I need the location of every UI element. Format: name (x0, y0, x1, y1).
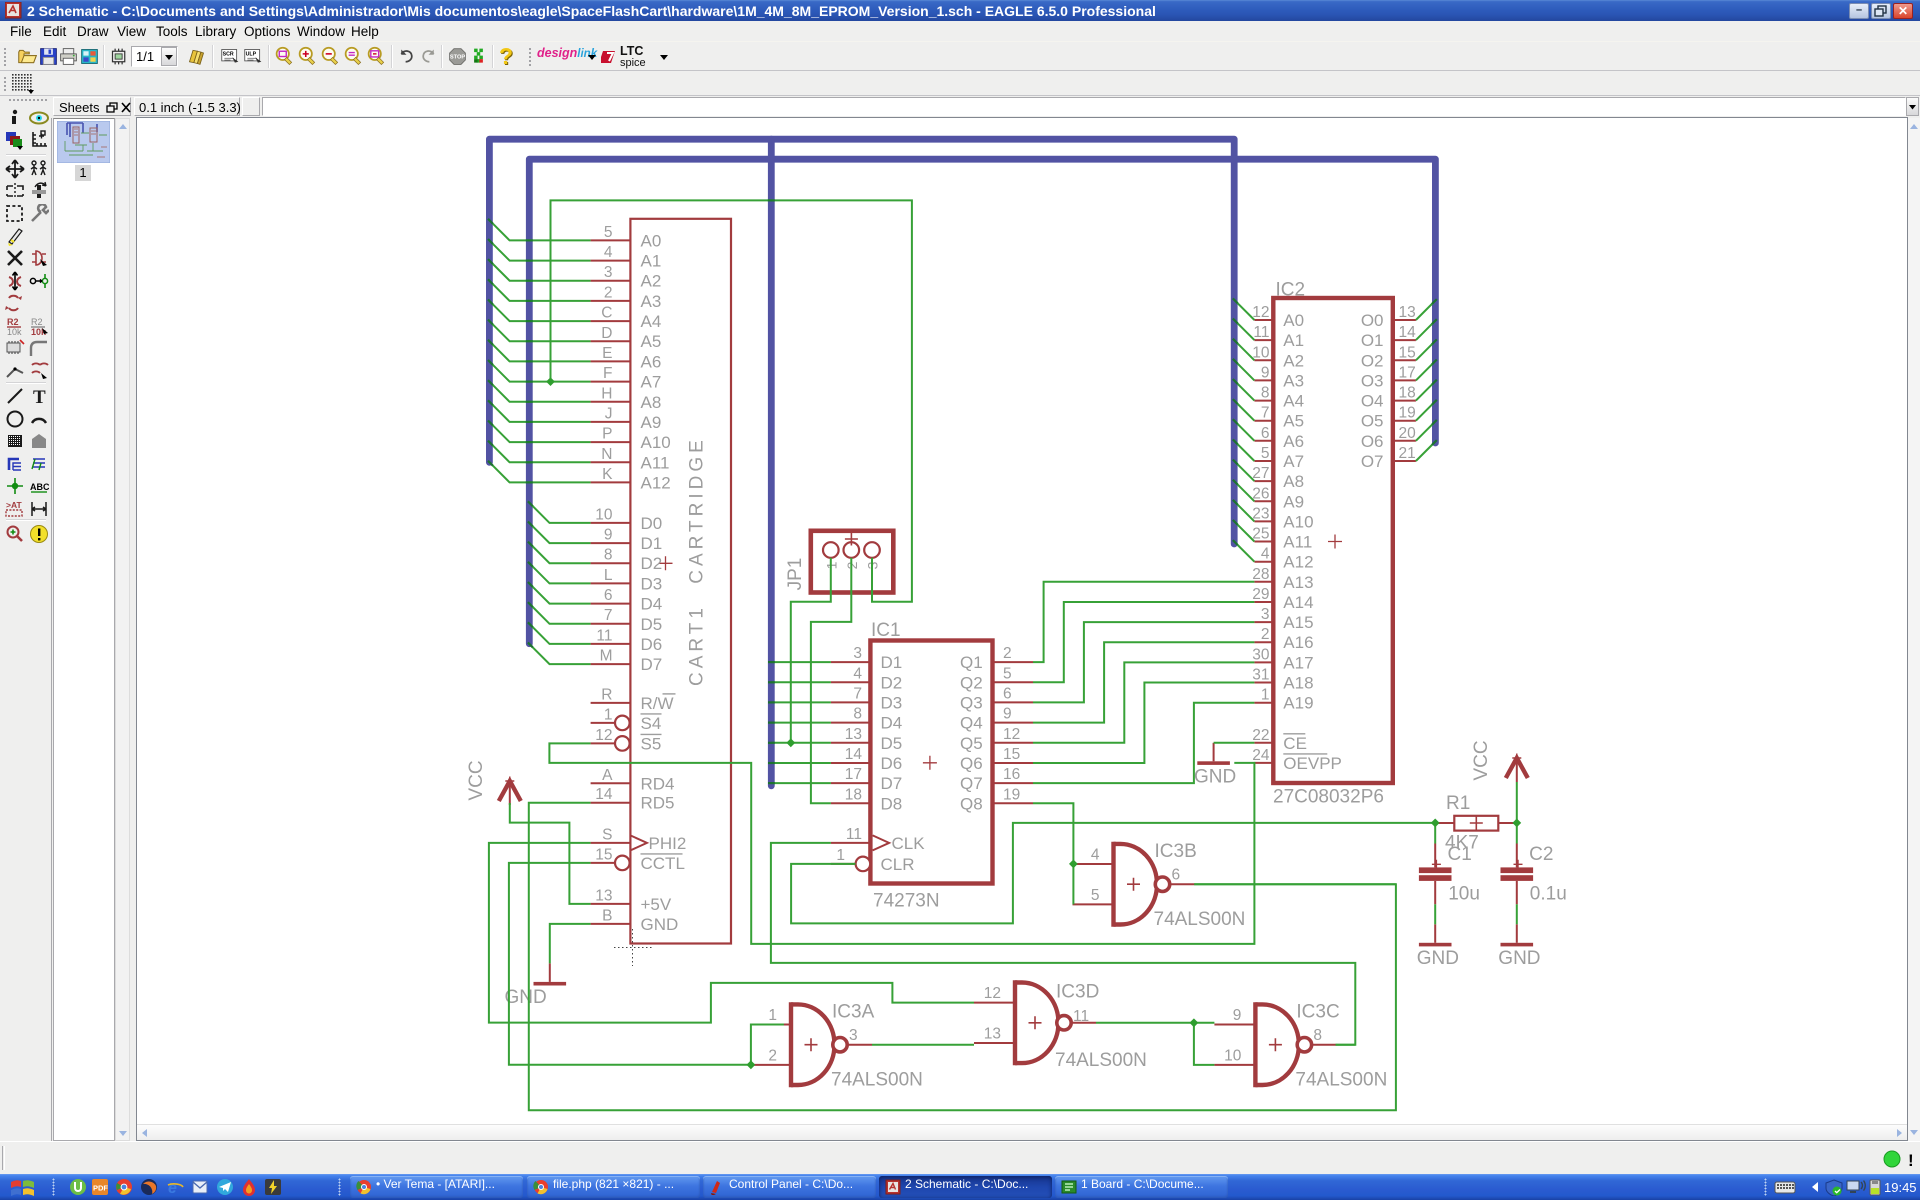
svg-text:9: 9 (1261, 364, 1270, 381)
svg-text:13: 13 (595, 887, 612, 904)
IC2 pins CE OE/VPP (1252, 727, 1342, 773)
svg-text:C: C (601, 305, 612, 322)
svg-text:3: 3 (853, 645, 862, 662)
svg-text:31: 31 (1252, 667, 1269, 684)
svg-text:15: 15 (595, 846, 612, 863)
wire net PHI2 to IC3D.12 (489, 843, 974, 1023)
wire net S5 to OE/VPP (549, 743, 1254, 944)
junction R1/VCC/C2 node (1512, 819, 1521, 828)
power VCC (right, R1) (1471, 740, 1528, 782)
svg-text:21: 21 (1399, 445, 1416, 462)
junction IC3A.1/2 (747, 1060, 756, 1069)
svg-text:D5: D5 (881, 734, 903, 753)
IC2 pins O0-O7 (1361, 304, 1416, 471)
svg-text:H: H (601, 385, 612, 402)
svg-text:19: 19 (1399, 405, 1416, 422)
svg-text:CART1: CART1 (687, 604, 708, 686)
bus ADDRESS (left vertical) (489, 139, 1234, 544)
wire nets Q1-Q6 to A13-A18 (1033, 582, 1254, 763)
svg-text:A10: A10 (641, 433, 671, 452)
svg-text:12: 12 (595, 727, 612, 744)
svg-text:A0: A0 (641, 231, 662, 250)
svg-text:IC1: IC1 (871, 620, 901, 641)
svg-text:A10: A10 (1283, 512, 1313, 531)
svg-text:R: R (601, 686, 612, 703)
svg-text:8: 8 (604, 547, 613, 564)
svg-text:A8: A8 (1283, 472, 1304, 491)
svg-text:A9: A9 (641, 413, 662, 432)
svg-text:14: 14 (845, 746, 863, 763)
svg-text:D5: D5 (641, 615, 663, 634)
svg-text:16: 16 (1003, 766, 1020, 783)
svg-text:D6: D6 (881, 754, 903, 773)
svg-text:24: 24 (1252, 747, 1270, 764)
wire net IC3D out to IC3C.9/10 (1096, 1023, 1214, 1065)
svg-text:A14: A14 (1283, 593, 1313, 612)
svg-text:A6: A6 (1283, 432, 1304, 451)
wire net RD5 to IC3B out (529, 803, 1396, 1111)
capacitor C2 0.1u (1501, 844, 1567, 905)
svg-text:A: A (602, 767, 613, 784)
svg-text:A5: A5 (641, 332, 662, 351)
connector JP1 jumper (785, 531, 893, 593)
svg-text:B: B (602, 907, 612, 924)
svg-text:D8: D8 (881, 794, 903, 813)
svg-text:25: 25 (1252, 526, 1269, 543)
svg-text:A9: A9 (1283, 492, 1304, 511)
svg-text:8: 8 (853, 706, 862, 723)
wire net IC3C out segment (1336, 1044, 1355, 1046)
wire net CLK: IC1 CLK to IC3C out (771, 843, 1355, 1045)
svg-text:+5V: +5V (641, 895, 672, 914)
svg-text:12: 12 (1003, 726, 1020, 743)
svg-text:13: 13 (845, 726, 862, 743)
svg-text:6: 6 (1003, 685, 1012, 702)
IC U1: IC1 74273N latch (870, 620, 992, 912)
junction IC3D out/IC3C.9 (1190, 1018, 1199, 1027)
CART1 pins D0-D7 (591, 506, 663, 674)
svg-text:S4: S4 (641, 714, 662, 733)
wire nets IC1 D1-D7 from middle bus (771, 662, 831, 783)
bus middle vertical branch (768, 139, 775, 786)
wire-over-bus crossing blends (526, 200, 775, 482)
svg-text:2: 2 (1003, 645, 1012, 662)
svg-text:>AT: >AT (6, 500, 22, 510)
svg-text:14: 14 (1399, 324, 1417, 341)
svg-text:74ALS00N: 74ALS00N (1154, 909, 1246, 930)
svg-text:CLK: CLK (892, 834, 926, 853)
wire net CE to GND (1214, 742, 1255, 744)
svg-text:C1: C1 (1448, 844, 1472, 865)
svg-text:D3: D3 (641, 574, 663, 593)
svg-text:A16: A16 (1283, 633, 1313, 652)
svg-text:D4: D4 (881, 714, 903, 733)
svg-text:ULP: ULP (246, 52, 257, 58)
svg-text:A8: A8 (641, 393, 662, 412)
svg-text:IC3D: IC3D (1056, 981, 1099, 1002)
svg-text:30: 30 (1252, 646, 1270, 663)
svg-text:J: J (605, 405, 613, 422)
svg-text:A11: A11 (1283, 533, 1312, 552)
svg-text:O0: O0 (1361, 311, 1384, 330)
junction A7 tap (546, 377, 555, 386)
svg-text:5: 5 (1261, 445, 1270, 462)
svg-text:15: 15 (1003, 746, 1020, 763)
gate IC3B 74ALS00N (1073, 841, 1246, 930)
wire net CLR/RESET (791, 823, 1435, 924)
wire net Q8 to IC3B inputs (1033, 803, 1073, 904)
svg-text:D4: D4 (641, 595, 663, 614)
svg-text:5: 5 (1091, 887, 1100, 904)
svg-text:11: 11 (1073, 1008, 1089, 1025)
IC1 pin CLK (831, 826, 925, 853)
wire net VCC right (1516, 782, 1518, 823)
svg-text:5: 5 (1003, 665, 1012, 682)
svg-text:74ALS00N: 74ALS00N (1055, 1050, 1147, 1071)
svg-text:D7: D7 (881, 774, 903, 793)
svg-text:A12: A12 (641, 473, 671, 492)
svg-text:3: 3 (849, 1027, 858, 1044)
svg-text:R/W: R/W (641, 694, 674, 713)
svg-text:22: 22 (1252, 727, 1269, 744)
wire net Q7 to A19 (1033, 703, 1254, 783)
svg-text:N: N (601, 446, 612, 463)
svg-text:RD5: RD5 (641, 794, 675, 813)
svg-text:D3: D3 (881, 693, 903, 712)
gate IC3C 74ALS00N (1214, 1002, 1387, 1091)
svg-text:VCC: VCC (466, 760, 487, 800)
svg-text:Q4: Q4 (960, 714, 983, 733)
svg-text:20: 20 (1399, 425, 1417, 442)
svg-text:S5: S5 (641, 734, 662, 753)
IC1 pin CLR (831, 847, 915, 874)
wire net IC3A out to IC3D.13 (872, 1044, 974, 1046)
svg-text:A0: A0 (1283, 311, 1304, 330)
svg-text:7: 7 (1261, 405, 1270, 422)
svg-text:10k: 10k (7, 327, 22, 336)
svg-text:18: 18 (1399, 385, 1416, 402)
svg-text:12: 12 (984, 985, 1001, 1002)
wire nets O0-O7 diagonals to data bus (1416, 301, 1436, 462)
svg-text:CCTL: CCTL (641, 854, 685, 873)
svg-text:9: 9 (1003, 706, 1012, 723)
svg-text:11: 11 (1253, 324, 1269, 341)
wire net A0-A12 from CART1 to address bus (489, 220, 590, 482)
svg-text:L: L (604, 567, 613, 584)
svg-text:Q5: Q5 (960, 734, 983, 753)
wire nets A0-A12 diagonals from address bus to IC2 (1234, 300, 1254, 562)
svg-text:28: 28 (1252, 566, 1269, 583)
svg-text:6: 6 (1261, 425, 1270, 442)
junction JP1.1/D5 (786, 738, 795, 747)
svg-text:O5: O5 (1361, 412, 1384, 431)
svg-text:O7: O7 (1361, 452, 1384, 471)
svg-text:6: 6 (604, 587, 613, 604)
svg-text:D2: D2 (641, 554, 663, 573)
svg-text:!: ! (1908, 1151, 1914, 1170)
IC2 pins A0-A19 (1252, 304, 1313, 713)
svg-text:A18: A18 (1283, 674, 1313, 693)
wire net D0-D7 from CART1 to data bus (529, 503, 590, 664)
svg-text:O2: O2 (1361, 351, 1384, 370)
svg-text:74ALS00N: 74ALS00N (1295, 1070, 1387, 1091)
svg-text:11: 11 (596, 627, 612, 644)
svg-text:3: 3 (604, 264, 613, 281)
svg-text:26: 26 (1252, 485, 1269, 502)
ground GND (C1) (1417, 924, 1459, 969)
svg-text:A7: A7 (1283, 452, 1304, 471)
svg-text:R2: R2 (31, 317, 43, 327)
wire net GND left (550, 924, 591, 964)
svg-text:3: 3 (1261, 606, 1270, 623)
gate IC3A 74ALS00N (750, 1002, 923, 1091)
svg-text:GND: GND (505, 987, 547, 1008)
svg-text:CARTRIDGE: CARTRIDGE (687, 436, 708, 584)
connector CART1 CARTRIDGE (630, 219, 731, 944)
svg-text:O4: O4 (1361, 392, 1384, 411)
svg-text:A15: A15 (1283, 613, 1313, 632)
svg-text:D: D (601, 325, 612, 342)
ground GND (CART1) (505, 963, 567, 1008)
svg-text:A19: A19 (1283, 694, 1313, 713)
svg-text:4: 4 (1091, 847, 1100, 864)
ground GND (IC2 CE) (1194, 743, 1236, 788)
svg-text:5: 5 (604, 224, 613, 241)
svg-text:74273N: 74273N (873, 891, 940, 912)
svg-text:0.1u: 0.1u (1530, 884, 1567, 905)
svg-text:R1: R1 (1446, 793, 1470, 814)
svg-text:13: 13 (1399, 304, 1416, 321)
svg-text:6: 6 (1172, 867, 1181, 884)
svg-text:R2: R2 (7, 317, 19, 327)
svg-text:A3: A3 (1283, 371, 1304, 390)
bus DATA (second) (529, 159, 1435, 644)
svg-text:11: 11 (846, 826, 862, 843)
svg-text:Q8: Q8 (960, 794, 983, 813)
svg-text:CE: CE (1283, 734, 1307, 753)
svg-text:e: e (168, 1180, 177, 1196)
svg-text:JP1: JP1 (785, 558, 806, 591)
wire net CCTL to IC3A.1/2 (509, 863, 784, 1065)
svg-text:IC3B: IC3B (1155, 841, 1197, 862)
svg-text:10: 10 (1252, 344, 1270, 361)
svg-text:IC3A: IC3A (832, 1002, 875, 1023)
svg-text:1: 1 (836, 847, 845, 864)
svg-text:2: 2 (604, 284, 613, 301)
junction Q8/IC3B.4 (1069, 860, 1078, 869)
svg-text:GND: GND (641, 915, 679, 934)
svg-text:OEVPP: OEVPP (1283, 754, 1342, 773)
svg-text:12: 12 (1252, 304, 1269, 321)
svg-text:A6: A6 (641, 352, 662, 371)
svg-text:D0: D0 (641, 514, 663, 533)
svg-text:29: 29 (1252, 586, 1269, 603)
svg-text:10: 10 (595, 506, 613, 523)
power VCC (left, CART +5V) (466, 760, 521, 805)
IC1 pins D1-D8 (831, 645, 902, 813)
svg-text:14: 14 (595, 786, 613, 803)
svg-text:A13: A13 (1283, 573, 1313, 592)
svg-text:D6: D6 (641, 635, 663, 654)
wire JP1.2 to IC1 D8 (811, 558, 851, 804)
svg-text:M: M (600, 648, 613, 665)
svg-text:1: 1 (604, 706, 613, 723)
svg-text:1: 1 (768, 1007, 777, 1024)
svg-text:7: 7 (853, 685, 862, 702)
svg-text:K: K (602, 466, 613, 483)
svg-text:13: 13 (984, 1026, 1001, 1043)
svg-text:STOP: STOP (450, 55, 466, 61)
IC U2: IC2 27C08032P6 EPROM (1273, 280, 1393, 808)
svg-text:27C08032P6: 27C08032P6 (1273, 787, 1384, 808)
svg-text:18: 18 (845, 786, 862, 803)
svg-text:SCR: SCR (223, 52, 234, 58)
svg-text:PHI2: PHI2 (649, 834, 687, 853)
svg-text:GND: GND (1417, 948, 1459, 969)
svg-text:Q7: Q7 (960, 774, 983, 793)
svg-text:A4: A4 (641, 312, 662, 331)
svg-text:IC3C: IC3C (1296, 1002, 1339, 1023)
IC1 pins Q1-Q8 (960, 645, 1033, 813)
svg-text:CLR: CLR (881, 855, 915, 874)
wire net C2 to GND (1516, 904, 1518, 924)
CART1 pins A0-A12 (591, 224, 671, 493)
junction R1/C1/CLR node (1431, 819, 1440, 828)
capacitor C1 10u (1419, 844, 1480, 905)
svg-text:4: 4 (1261, 546, 1270, 563)
wire net A7/JP1.3 top link (551, 200, 912, 601)
svg-text:PDF: PDF (93, 1184, 108, 1193)
svg-text:E: E (602, 345, 612, 362)
svg-text:ABC: ABC (30, 482, 49, 492)
svg-text:2: 2 (1261, 626, 1270, 643)
svg-text:D7: D7 (641, 655, 663, 674)
mouse crosshair (614, 929, 652, 966)
svg-text:4: 4 (853, 665, 862, 682)
svg-text:A12: A12 (1283, 553, 1313, 572)
svg-text:2: 2 (768, 1047, 777, 1064)
gate IC3D 74ALS00N (974, 980, 1147, 1071)
svg-text:23: 23 (1252, 505, 1269, 522)
svg-text:Q6: Q6 (960, 754, 983, 773)
svg-text:D1: D1 (881, 653, 903, 672)
svg-text:D1: D1 (641, 534, 663, 553)
svg-text:A2: A2 (641, 272, 662, 291)
svg-text:IC2: IC2 (1276, 280, 1306, 301)
svg-text:17: 17 (845, 766, 862, 783)
resistor R1 4K7 (1435, 793, 1517, 854)
svg-text:15: 15 (1399, 344, 1416, 361)
svg-text:GND: GND (1194, 766, 1236, 787)
svg-text:10: 10 (1224, 1047, 1242, 1064)
bus tap nubs (488, 219, 1437, 783)
svg-text:8: 8 (1261, 385, 1270, 402)
svg-text:A7: A7 (641, 373, 662, 392)
svg-text:7: 7 (604, 607, 613, 624)
svg-text:A4: A4 (1283, 392, 1304, 411)
svg-text:9: 9 (1233, 1007, 1242, 1024)
svg-text:A17: A17 (1283, 653, 1313, 672)
svg-text:O6: O6 (1361, 432, 1384, 451)
svg-text:VCC: VCC (1471, 740, 1492, 780)
svg-text:F: F (603, 365, 612, 382)
svg-text:Q2: Q2 (960, 673, 983, 692)
ground GND (C2) (1498, 924, 1540, 969)
svg-text:S: S (602, 826, 612, 843)
svg-text:A1: A1 (641, 252, 662, 271)
wire net VCC left to +5V (510, 803, 591, 904)
svg-text:17: 17 (1399, 364, 1416, 381)
svg-text:4: 4 (604, 244, 613, 261)
svg-text:RD4: RD4 (641, 774, 675, 793)
svg-text:A5: A5 (1283, 412, 1304, 431)
svg-text:A1: A1 (1283, 331, 1304, 350)
svg-text:A2: A2 (1283, 351, 1304, 370)
svg-text:74ALS00N: 74ALS00N (831, 1070, 923, 1091)
svg-text:D2: D2 (881, 673, 903, 692)
svg-text:10u: 10u (1448, 884, 1480, 905)
svg-text:A11: A11 (641, 453, 670, 472)
wire net IC3B out segment (1194, 883, 1396, 885)
svg-text:Q3: Q3 (960, 693, 983, 712)
svg-text:27: 27 (1252, 465, 1269, 482)
wire net C1 to GND (1434, 904, 1436, 924)
svg-text:T: T (33, 387, 46, 406)
svg-text:1: 1 (1261, 687, 1270, 704)
svg-text:GND: GND (1498, 948, 1540, 969)
svg-text:A3: A3 (641, 292, 662, 311)
svg-text:O1: O1 (1361, 331, 1384, 350)
svg-text:O3: O3 (1361, 371, 1384, 390)
svg-text:P: P (602, 426, 612, 443)
wire net R1-C1 junction leads (1435, 823, 1517, 844)
svg-text:Q1: Q1 (960, 653, 983, 672)
CART1 lower pins (591, 686, 687, 934)
svg-text:19: 19 (1003, 786, 1020, 803)
svg-text:9: 9 (604, 527, 613, 544)
svg-text:C2: C2 (1529, 844, 1553, 865)
wire JP1.1 to IC1 D5 (791, 558, 831, 743)
svg-text:8: 8 (1313, 1027, 1322, 1044)
